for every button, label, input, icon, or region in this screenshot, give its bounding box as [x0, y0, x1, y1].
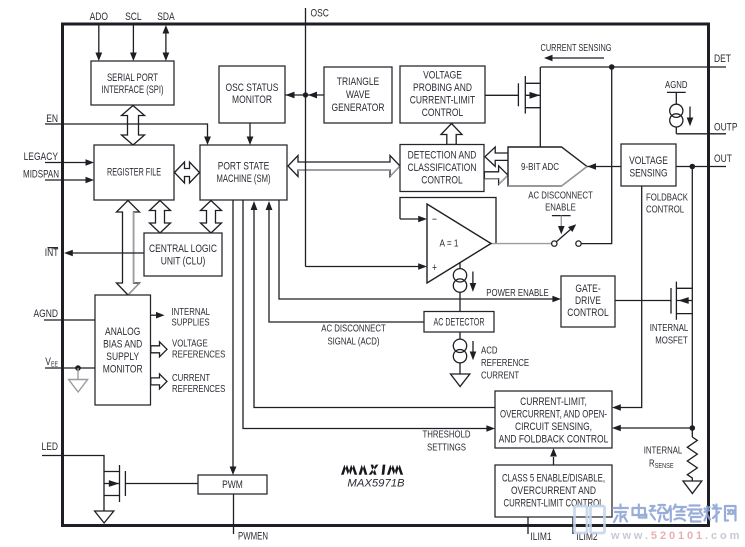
svg-text:CURRENT: CURRENT: [172, 373, 211, 384]
svg-text:LEGACY: LEGACY: [24, 151, 59, 163]
svg-text:BIAS AND: BIAS AND: [103, 339, 142, 351]
svg-text:CURRENT-LIMIT: CURRENT-LIMIT: [410, 95, 475, 107]
bus arrow REGISTER FILE to CLU: [150, 201, 171, 234]
wire CLASS 5 to CURRENT-LIMIT: [553, 457, 555, 465]
block SERIAL PORT INTERFACE (SPI): [91, 61, 174, 105]
annotation arrow CURRENT SENSING: [552, 57, 604, 59]
svg-text:CURRENT: CURRENT: [481, 371, 520, 382]
svg-text:AC DETECTOR: AC DETECTOR: [434, 317, 485, 329]
svg-text:CURRENT-LIMIT CONTROL: CURRENT-LIMIT CONTROL: [504, 498, 604, 510]
wire MIDSPAN pin: [45, 179, 86, 181]
svg-text:ACD: ACD: [481, 346, 498, 357]
svg-text:REFERENCE: REFERENCE: [481, 358, 529, 369]
svg-text:+: +: [432, 262, 437, 274]
block CURRENT-LIMIT OVERCURRENT OPEN-CIRCUIT SENSING FOLDBACK CONTROL: [495, 391, 612, 448]
svg-text:OSC: OSC: [311, 8, 329, 20]
svg-text:OVERCURRENT, AND OPEN-: OVERCURRENT, AND OPEN-: [500, 409, 607, 421]
wire foldback from VOLTAGE SENSING to CURRENT-LIMIT: [621, 186, 642, 408]
svg-text:LED: LED: [42, 441, 59, 453]
wire VEE pin: [45, 367, 95, 369]
wire OSC pin vertical: [305, 8, 307, 267]
svg-text:CLASSIFICATION: CLASSIFICATION: [407, 162, 476, 174]
svg-text:CENTRAL LOGIC: CENTRAL LOGIC: [149, 243, 217, 255]
wire OUT pin: [587, 166, 726, 168]
switch AC disconnect: [552, 216, 582, 247]
svg-text:OVERCURRENT AND: OVERCURRENT AND: [511, 485, 596, 497]
transistor INTERNAL MOSFET: [671, 167, 692, 438]
svg-text:INTERFACE (SPI): INTERFACE (SPI): [102, 84, 164, 96]
svg-text:INTERNAL: INTERNAL: [172, 307, 211, 318]
wire GATE-DRIVE to internal MOSFET gate: [615, 300, 671, 302]
svg-text:MOSFET: MOSFET: [655, 336, 688, 347]
svg-text:MONITOR: MONITOR: [232, 94, 272, 106]
svg-text:TRIANGLE: TRIANGLE: [337, 76, 380, 88]
block GATE-DRIVE CONTROL: [561, 276, 615, 327]
svg-text:CURRENT SENSING: CURRENT SENSING: [541, 43, 612, 54]
wire DET pin: [541, 66, 726, 68]
ground below RSENSE: [683, 481, 702, 494]
bus arrow PSM to DETECTION (double headed): [288, 156, 400, 177]
svg-text:CURRENT-LIMIT,: CURRENT-LIMIT,: [520, 396, 587, 408]
svg-text:PWMEN: PWMEN: [238, 531, 268, 543]
bus arrow DETECTION to ADC: [484, 166, 508, 185]
svg-text:DET: DET: [714, 53, 731, 65]
svg-text:AND FOLDBACK CONTROL: AND FOLDBACK CONTROL: [499, 434, 609, 446]
transistor LED driver MOSFET: [104, 465, 198, 502]
bus arrow ANALOG BIAS to CURRENT REFERENCES: [151, 374, 167, 389]
svg-text:SIGNAL (ACD): SIGNAL (ACD): [327, 337, 379, 348]
svg-text:VOLTAGE: VOLTAGE: [172, 339, 208, 350]
svg-text:CIRCUIT SENSING,: CIRCUIT SENSING,: [515, 421, 592, 433]
svg-text:−: −: [432, 214, 437, 226]
wire SDA pin (bidirectional): [165, 32, 167, 53]
block PORT STATE MACHINE (SM): [200, 145, 287, 200]
block ANALOG BIAS AND SUPPLY MONITOR: [95, 295, 151, 405]
svg-text:DRIVE: DRIVE: [575, 295, 601, 307]
current source below op-amp: [453, 263, 476, 312]
block CENTRAL LOGIC UNIT (CLU): [144, 233, 222, 276]
wire RSENSE node to CURRENT-LIMIT: [621, 427, 693, 429]
bus arrow ANALOG BIAS to VOLTAGE REFERENCES: [151, 342, 167, 357]
block DETECTION AND CLASSIFICATION CONTROL: [400, 145, 484, 192]
svg-text:OSC STATUS: OSC STATUS: [226, 82, 279, 94]
svg-text:MACHINE (SM): MACHINE (SM): [217, 173, 271, 185]
svg-text:REGISTER FILE: REGISTER FILE: [107, 167, 161, 179]
current source AGND (top right): [667, 92, 693, 133]
svg-text:SUPPLY: SUPPLY: [106, 351, 139, 363]
bus arrow ADC to DETECTION: [485, 147, 509, 166]
wire ILIM2 pin: [572, 517, 574, 534]
svg-text:SUPPLIES: SUPPLIES: [172, 318, 210, 329]
block CLASS 5 ENABLE/DISABLE OVERCURRENT AND CURRENT-LIMIT CONTROL: [495, 465, 612, 517]
svg-text:CONTROL: CONTROL: [422, 107, 463, 119]
wire LEGACY pin: [45, 162, 86, 164]
wire LED pin to LED driver MOSFET: [42, 456, 104, 512]
wire op-amp + input from OSC line: [306, 266, 419, 268]
svg-text:SDA: SDA: [157, 11, 175, 23]
node RSENSE junction dot: [690, 425, 696, 431]
svg-text:EN: EN: [46, 113, 58, 125]
svg-text:MIDSPAN: MIDSPAN: [23, 169, 59, 181]
wire OUTP pin from AGND current source: [676, 133, 726, 135]
wire OSC STATUS MONITOR to PSM: [249, 123, 251, 137]
svg-text:RSENSE: RSENSE: [649, 459, 674, 471]
bus arrow REGISTER FILE to PORT STATE MACHINE: [175, 162, 200, 183]
wire VOLTAGE PROBING to sense FET gate: [485, 94, 518, 96]
node VEE junction dot: [75, 365, 81, 371]
svg-text:REFERENCES: REFERENCES: [172, 384, 225, 395]
wire ADO pin: [98, 24, 100, 53]
op-amp A=1 buffer: [427, 204, 491, 283]
wire CURRENT-LIMIT to PSM: [254, 210, 496, 408]
watermark 520101.com: [575, 505, 743, 543]
svg-text:ADO: ADO: [90, 11, 109, 23]
svg-text:VOLTAGE: VOLTAGE: [629, 155, 668, 167]
svg-text:GATE-: GATE-: [575, 283, 600, 295]
svg-text:POWER ENABLE: POWER ENABLE: [486, 288, 548, 299]
ground LED MOSFET: [95, 511, 114, 523]
bus arrow REGISTER FILE to ANALOG BIAS (long): [117, 201, 140, 296]
wire PSM to PWM: [232, 200, 234, 467]
node DET junction dot: [609, 64, 615, 70]
svg-text:ANALOG: ANALOG: [105, 326, 140, 338]
svg-text:OUT: OUT: [714, 153, 732, 165]
wire OSC junction to OSC STATUS MONITOR and TRIANGLE WAVE GENERATOR: [285, 94, 324, 96]
svg-text:SENSING: SENSING: [629, 168, 667, 180]
svg-text:ILIM1: ILIM1: [530, 531, 551, 543]
svg-text:9-BIT ADC: 9-BIT ADC: [521, 162, 559, 173]
wire PSM power enable to GATE-DRIVE CONTROL: [279, 200, 553, 299]
bus arrow DETECTION to VOLTAGE PROBING: [441, 124, 462, 145]
wire op-amp feedback loop: [400, 198, 496, 244]
block VOLTAGE PROBING AND CURRENT-LIMIT CONTROL: [400, 66, 485, 123]
svg-text:SETTINGS: SETTINGS: [427, 443, 466, 454]
block AC DETECTOR: [424, 312, 494, 333]
svg-text:PROBING AND: PROBING AND: [413, 82, 472, 94]
bus arrow PSM to CLU: [201, 201, 222, 234]
svg-text:ENABLE: ENABLE: [545, 203, 576, 214]
ground ACD: [451, 374, 470, 387]
svg-text:INTERNAL: INTERNAL: [644, 446, 683, 457]
svg-text:SERIAL PORT: SERIAL PORT: [107, 72, 158, 84]
svg-text:CONTROL: CONTROL: [646, 205, 684, 216]
wire AGND pin: [44, 319, 95, 321]
svg-text:THRESHOLD: THRESHOLD: [422, 430, 470, 441]
svg-text:MAX5971B: MAX5971B: [347, 478, 405, 490]
svg-text:WAVE: WAVE: [346, 89, 370, 101]
svg-text:CONTROL: CONTROL: [567, 307, 608, 319]
svg-text:AGND: AGND: [34, 308, 59, 320]
svg-text:CLASS 5 ENABLE/DISABLE,: CLASS 5 ENABLE/DISABLE,: [502, 473, 605, 485]
resistor INTERNAL RSENSE: [687, 437, 697, 481]
bus arrow SPI to REGISTER FILE: [122, 106, 145, 146]
svg-text:PORT STATE: PORT STATE: [218, 161, 270, 173]
node OUT junction dot: [690, 164, 696, 170]
svg-text:DETECTION AND: DETECTION AND: [408, 150, 477, 162]
svg-text:FOLDBACK: FOLDBACK: [646, 193, 688, 204]
svg-text:INTERNAL: INTERNAL: [650, 323, 689, 334]
node OSC junction dot: [303, 92, 308, 97]
svg-text:PWM: PWM: [222, 479, 243, 491]
transistor current-sense MOSFET (top): [518, 67, 540, 147]
svg-text:A = 1: A = 1: [440, 239, 459, 250]
svg-text:GENERATOR: GENERATOR: [332, 102, 385, 114]
svg-text:UNIT (CLU): UNIT (CLU): [161, 256, 206, 268]
svg-text:AC DISCONNECT: AC DISCONNECT: [528, 191, 593, 202]
svg-text:AC DISCONNECT: AC DISCONNECT: [321, 324, 386, 335]
svg-text:CONTROL: CONTROL: [421, 175, 462, 187]
block OSC STATUS MONITOR: [219, 66, 285, 123]
wire ILIM1 pin: [527, 517, 529, 534]
block PWM: [198, 475, 267, 494]
logo MAXIM: [341, 465, 403, 475]
block TRIANGLE WAVE GENERATOR: [324, 67, 392, 123]
wire SCL pin: [132, 24, 134, 53]
current source ACD reference: [453, 332, 476, 374]
svg-text:www.520101.com: www.520101.com: [610, 530, 742, 542]
block REGISTER FILE: [94, 145, 174, 200]
wire PWMEN pin: [233, 494, 235, 534]
block 9-BIT ADC (pentagon): [508, 147, 587, 186]
wire op-amp output (grey) to switch: [491, 243, 552, 245]
svg-text:INT: INT: [45, 247, 59, 259]
svg-text:AGND: AGND: [665, 80, 688, 91]
wire AC DETECTOR to PSM (ACD signal): [269, 210, 424, 323]
svg-text:MONITOR: MONITOR: [103, 364, 143, 376]
svg-text:VOLTAGE: VOLTAGE: [423, 70, 462, 82]
wire INT output from CLU: [73, 252, 145, 254]
svg-text:SCL: SCL: [125, 11, 142, 23]
chip outer border: [63, 24, 709, 526]
wire PSM to CURRENT-LIMIT threshold settings: [243, 200, 487, 429]
ground VEE (grey open triangle): [69, 368, 88, 392]
wire EN pin: [45, 124, 208, 137]
svg-text:OUTP: OUTP: [714, 122, 738, 134]
svg-text:REFERENCES: REFERENCES: [172, 350, 225, 361]
block VOLTAGE SENSING: [621, 144, 676, 186]
wire switch to DET line: [581, 67, 612, 244]
